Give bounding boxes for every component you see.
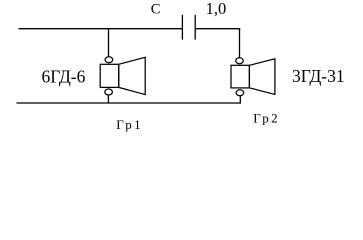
svg-text:C: C <box>151 2 161 18</box>
node T junction wire tap to Gr1 <box>108 28 110 56</box>
speaker Gr2 cone trapezoid <box>249 59 275 95</box>
speaker Gr1 body rectangle <box>100 64 119 87</box>
wire top bus left segment <box>19 28 183 30</box>
capacitor C right plate <box>194 15 196 40</box>
svg-text:Гр2: Гр2 <box>253 111 280 126</box>
wire Gr2 bottom terminal to bus <box>239 96 241 104</box>
capacitor C left plate <box>181 15 183 40</box>
speaker Gr2 body rectangle <box>231 65 249 88</box>
speaker Gr2 top terminal circle <box>236 58 244 64</box>
svg-text:3ГД-31: 3ГД-31 <box>292 66 345 86</box>
svg-text:Гр1: Гр1 <box>116 117 143 132</box>
speaker Gr1 bottom terminal circle <box>105 89 113 95</box>
speaker Gr1 cone trapezoid <box>119 57 146 94</box>
wire top bus right segment <box>195 28 240 30</box>
speaker Gr2 bottom terminal circle <box>236 90 244 96</box>
svg-text:6ГД-6: 6ГД-6 <box>42 66 86 86</box>
wire vertical drop to Gr2 top terminal <box>239 28 241 58</box>
wire bottom bus <box>17 102 241 104</box>
wire Gr1 bottom terminal to bus <box>107 95 109 103</box>
svg-text:1,0: 1,0 <box>206 0 227 18</box>
speaker Gr1 top terminal circle <box>105 57 113 63</box>
